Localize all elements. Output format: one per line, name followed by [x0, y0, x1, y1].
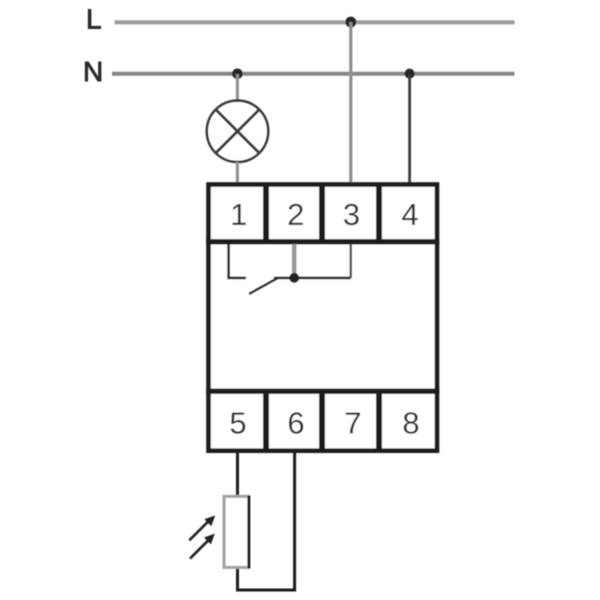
internal wire from terminal 1 (fixed contact): [229, 244, 246, 278]
lamp E1 cross stroke 1: [216, 110, 260, 154]
svg-text:5: 5: [229, 406, 246, 441]
svg-text:2: 2: [287, 197, 304, 232]
svg-text:1: 1: [230, 197, 247, 232]
internal junction dot: [289, 273, 299, 283]
top row separator 3/4: [376, 184, 382, 244]
wire: N bus to terminal 4: [408, 74, 411, 184]
bottom row separator 7/8: [376, 389, 382, 452]
wire: L bus to terminal 3: [349, 22, 352, 184]
lamp E1 cross stroke 2: [216, 110, 260, 154]
internal common bar to terminal 3: [274, 277, 351, 280]
junction on N bus (to lamp): [232, 69, 243, 80]
wire: L bus: [115, 20, 515, 24]
internal wire from terminal 3: [350, 244, 352, 278]
light arrow 2 head: [204, 534, 215, 545]
light arrow 2 shaft: [190, 540, 209, 559]
relay switch blade (open): [249, 278, 278, 294]
top row separator 1/2: [263, 184, 269, 244]
svg-text:N: N: [83, 56, 103, 87]
wire: photoresistor to terminal 6: [238, 453, 295, 590]
wire: terminal 5 to photoresistor: [236, 453, 239, 496]
svg-text:L: L: [86, 4, 102, 35]
light arrow 1 shaft: [189, 522, 208, 541]
wire: N bus to lamp: [236, 74, 239, 101]
top row separator 2/3: [319, 184, 325, 244]
svg-text:6: 6: [287, 406, 304, 441]
bottom row separator 5/6: [263, 389, 269, 452]
wire: lamp to terminal 1: [236, 162, 239, 184]
bottom row separator 6/7: [319, 389, 325, 452]
svg-text:4: 4: [401, 197, 418, 232]
relay device body outline: [209, 185, 438, 451]
photoresistor body: [224, 496, 249, 567]
lamp E1 circle: [207, 101, 269, 163]
svg-text:3: 3: [343, 197, 360, 232]
photoresistor right edge (dark): [247, 496, 250, 569]
top terminal row bottom edge: [206, 239, 439, 244]
junction on L bus: [345, 17, 356, 28]
light arrow 1 head: [204, 515, 215, 526]
bottom terminal row top edge: [206, 389, 439, 394]
wire: N bus: [112, 72, 515, 76]
svg-text:7: 7: [344, 406, 361, 441]
svg-text:8: 8: [402, 406, 419, 441]
junction on N bus (to terminal 4): [405, 69, 415, 79]
internal wire from terminal 2 (coil feed, gray): [292, 244, 297, 274]
